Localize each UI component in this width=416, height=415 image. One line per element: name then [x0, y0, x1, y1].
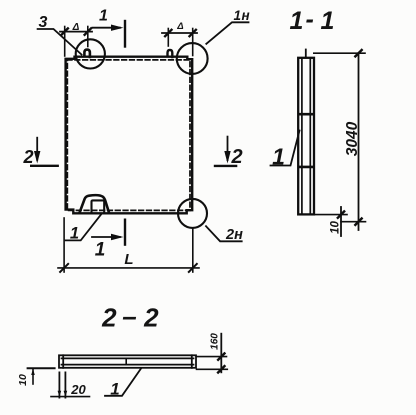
leader 3	[38, 29, 82, 55]
svg-text:3: 3	[39, 14, 48, 31]
svg-text:Δ: Δ	[176, 21, 183, 32]
detail circle (top-left loop)	[76, 39, 105, 68]
section 1-1 top tick (loop end)	[305, 50, 307, 58]
svg-text:2: 2	[143, 303, 159, 333]
dimension A top-left: ticks	[62, 28, 92, 34]
svg-text:1: 1	[110, 380, 119, 399]
svg-text:1: 1	[272, 144, 285, 170]
dimension A top-left: dimension line	[60, 31, 92, 33]
panel inner dashed contour	[67, 60, 190, 211]
leader 1 (section 2-2)	[105, 369, 141, 396]
detail circle 1н (top-right corner)	[177, 43, 208, 74]
dimension 3040: ticks	[338, 50, 362, 225]
svg-text:2: 2	[101, 303, 117, 333]
leader 1 (section 1-1)	[271, 131, 300, 166]
dimension A top-right: ticks	[165, 30, 196, 36]
dimension 10 (left of 2-2)	[28, 367, 55, 369]
svg-text:1н: 1н	[234, 8, 251, 23]
lifting loop top-left	[84, 50, 90, 57]
leader 1н	[206, 22, 248, 44]
section 1-1 body	[298, 58, 314, 215]
svg-text:1: 1	[321, 7, 335, 35]
panel outline (plan view)	[66, 57, 193, 214]
svg-text:1: 1	[70, 225, 79, 243]
svg-text:1: 1	[290, 7, 304, 35]
lifting loop bottom (side view)	[80, 195, 109, 212]
svg-text:-: -	[306, 6, 314, 34]
svg-text:10: 10	[17, 374, 29, 386]
dimension A top-left: extension lines	[64, 27, 66, 57]
svg-text:3040: 3040	[344, 121, 361, 156]
dimension L: ticks	[60, 264, 197, 272]
svg-text:Δ: Δ	[72, 22, 80, 33]
svg-text:2: 2	[230, 146, 242, 168]
leader 2н	[206, 226, 242, 241]
leader 1 (bottom loop)	[66, 215, 102, 241]
dimension 3040: extension + dim lines	[314, 52, 365, 54]
svg-text:2: 2	[22, 147, 33, 167]
section mark 1 top	[93, 27, 121, 29]
section 2-2 body	[59, 355, 196, 368]
svg-text:10: 10	[330, 221, 342, 234]
svg-text:160: 160	[210, 333, 221, 350]
svg-text:20: 20	[70, 382, 86, 397]
svg-text:L: L	[124, 251, 133, 268]
detail circle 2н (bottom-right corner)	[178, 199, 207, 228]
section mark 2 left	[36, 138, 38, 160]
section mark 2 right	[227, 137, 229, 160]
dimension 160 (right of 2-2)	[197, 356, 227, 358]
dimension A top-right: dimension line	[162, 32, 197, 34]
svg-text:1: 1	[95, 240, 106, 261]
svg-text:1: 1	[99, 8, 108, 25]
dimension A top-right: extension lines	[167, 29, 169, 47]
lifting loop top-right	[168, 50, 173, 57]
section mark 1 bottom	[92, 236, 120, 238]
dimension L: dimension line	[58, 267, 199, 269]
svg-text:2н: 2н	[225, 227, 243, 243]
dimension 20	[59, 372, 65, 397]
dimension L: extension lines	[63, 218, 65, 272]
svg-text:–: –	[122, 301, 136, 331]
